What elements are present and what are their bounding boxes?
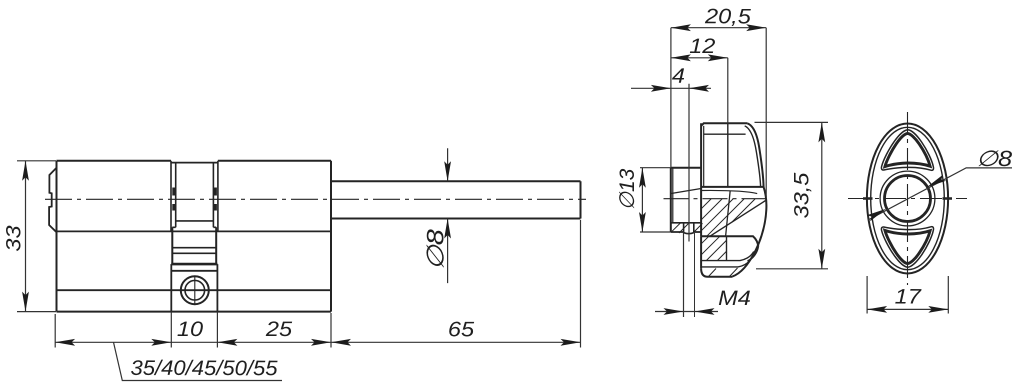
svg-text:33: 33	[2, 225, 26, 252]
svg-text:10: 10	[177, 317, 204, 341]
svg-text:∅8: ∅8	[976, 147, 1013, 171]
svg-text:33,5: 33,5	[790, 172, 814, 218]
svg-text:4: 4	[672, 64, 685, 88]
svg-text:∅13: ∅13	[616, 168, 639, 210]
svg-text:∅8: ∅8	[422, 229, 449, 270]
svg-text:M4: M4	[718, 286, 751, 310]
svg-text:17: 17	[895, 285, 923, 309]
svg-text:12: 12	[689, 34, 716, 58]
svg-text:25: 25	[265, 317, 293, 341]
svg-text:65: 65	[448, 317, 475, 341]
svg-text:20,5: 20,5	[704, 4, 751, 28]
svg-text:35/40/45/50/55: 35/40/45/50/55	[130, 356, 278, 380]
